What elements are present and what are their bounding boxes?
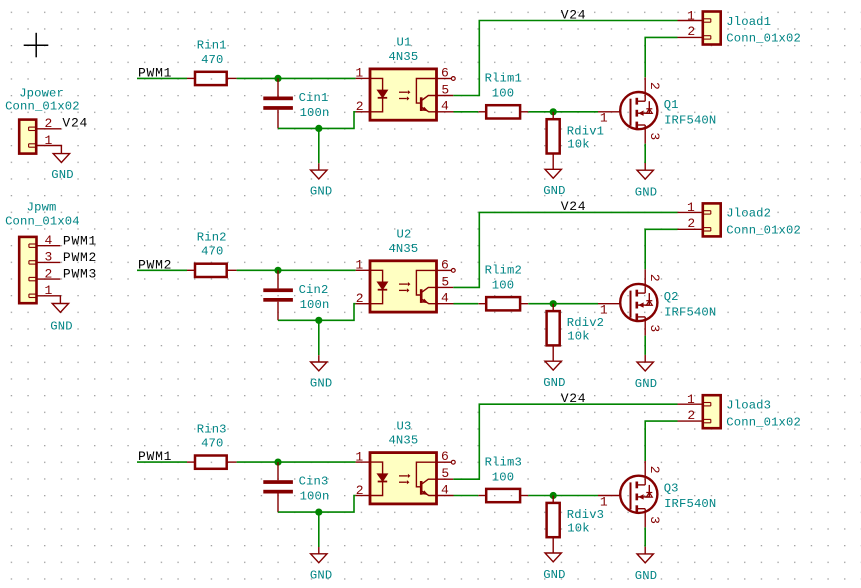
wire drain of Q3 to Jload3 pin 2	[645, 421, 677, 461]
wire PWM1 to Rin3	[137, 461, 187, 463]
ground symbol at Jpower pin 1	[53, 154, 69, 163]
opto-coupler U1 light arrows	[399, 90, 410, 101]
resistor Rlim2 value label 100	[492, 279, 514, 293]
transistor Q3 source pin	[644, 509, 646, 528]
svg-text:2: 2	[356, 291, 364, 306]
connector Jload1 value label Conn_01x02	[726, 32, 801, 46]
pin number 6 of U3	[441, 449, 449, 464]
pin number 6 of U1	[441, 66, 449, 81]
capacitor Cin3 reference label	[299, 475, 329, 489]
svg-text:4: 4	[441, 482, 449, 497]
transistor Q1 drain pin	[644, 77, 646, 101]
ground label GND below Q1	[635, 185, 657, 199]
svg-text:4N35: 4N35	[388, 50, 418, 64]
svg-text:10k: 10k	[567, 138, 589, 152]
opto-coupler U3 pin 5	[437, 478, 454, 480]
pin number 3 of Q1	[647, 132, 662, 140]
svg-text:4: 4	[45, 233, 53, 248]
resistor Rdiv2 value label 10k	[567, 330, 589, 344]
wire drain of Q2 to Jload2 pin 2	[645, 229, 677, 269]
resistor Rdiv1	[547, 112, 560, 170]
ground label GND below Cin3	[310, 568, 332, 582]
resistor Rdiv3	[547, 496, 560, 554]
svg-text:4N35: 4N35	[388, 242, 418, 256]
transistor Q2 body	[620, 284, 657, 321]
ground symbol below Rdiv2	[545, 361, 561, 370]
svg-text:2: 2	[687, 216, 695, 231]
pin number 6 of U2	[441, 257, 449, 272]
capacitor Cin2 value label 100n	[300, 298, 330, 312]
svg-text:Cin2: Cin2	[299, 283, 329, 297]
opto-coupler U2 pin 1	[356, 269, 370, 271]
net label PWM2 at Jpwm pin 3	[63, 250, 97, 265]
opto-coupler U1 pin 6 unconnected	[437, 77, 456, 81]
connector Jload2 pin 1	[678, 211, 711, 214]
svg-text:Q1: Q1	[664, 98, 679, 112]
svg-text:470: 470	[201, 437, 223, 451]
opto-coupler U1 pin 4	[437, 111, 454, 113]
svg-text:Rin3: Rin3	[197, 422, 227, 436]
transistor Q2 gate pin	[598, 303, 620, 305]
ground label GND below Jpwm	[50, 319, 72, 333]
pin number 5 of U3	[441, 466, 449, 481]
ground label GND below Cin2	[310, 377, 332, 391]
resistor Rlim1	[479, 105, 529, 118]
svg-text:Rdiv2: Rdiv2	[567, 316, 604, 330]
svg-text:Conn_01x02: Conn_01x02	[726, 415, 801, 429]
opto-coupler U2 pin 2	[356, 303, 370, 305]
resistor Rin3	[187, 456, 237, 469]
svg-text:Jpwm: Jpwm	[27, 201, 57, 215]
ground symbol below Cin1	[311, 163, 327, 179]
ground symbol at Jpwm pin 1	[52, 304, 68, 313]
connector Jpwm pin 4	[29, 244, 61, 247]
svg-text:5: 5	[441, 274, 449, 289]
svg-text:100n: 100n	[300, 298, 330, 312]
svg-text:4: 4	[441, 99, 449, 114]
svg-text:2: 2	[647, 82, 662, 90]
opto-coupler U3 pin 4	[437, 495, 454, 497]
resistor Rlim1 value label 100	[492, 87, 514, 101]
connector Jpower value label Conn_01x02	[5, 100, 80, 114]
wire junction to ground channel 2	[318, 320, 320, 355]
pin number 4 of Jpwm	[45, 233, 53, 248]
net label V24 at Jpower pin 2	[62, 115, 88, 130]
connector Jpwm pin 3	[29, 261, 61, 264]
svg-text:Jload2: Jload2	[726, 207, 771, 221]
pin number 1 of Jload2	[687, 200, 695, 215]
capacitor Cin1 value label 100n	[300, 106, 330, 120]
resistor Rin1 value label 470	[201, 53, 223, 67]
svg-text:10k: 10k	[567, 330, 589, 344]
transistor Q1 gate pin	[598, 111, 620, 113]
net label PWM3 at Jpwm pin 2	[63, 267, 97, 282]
svg-text:PWM2: PWM2	[63, 250, 97, 265]
connector Jload1 pin 2	[678, 36, 711, 39]
ground label GND below Rdiv1	[543, 184, 565, 198]
svg-text:2: 2	[647, 274, 662, 282]
wire opto pin 4 to Rlim2	[454, 303, 479, 305]
transistor Q3 value label IRF540N	[664, 497, 716, 511]
wire junction to ground channel 3	[318, 512, 320, 547]
junction at Cin2 top	[274, 267, 281, 274]
pin number 1 of U1	[355, 66, 363, 81]
svg-text:Conn_01x02: Conn_01x02	[726, 32, 801, 46]
pin number 4 of U3	[441, 482, 449, 497]
opto-coupler U3 pin 2	[356, 495, 370, 497]
capacitor Cin1 reference label	[299, 91, 329, 105]
svg-text:GND: GND	[543, 184, 565, 198]
connector Jload2 value label Conn_01x02	[726, 224, 801, 238]
pin number 5 of U1	[441, 82, 449, 97]
wire opto pin 4 to Rlim3	[454, 495, 479, 497]
wire source of Q3 to ground	[644, 527, 646, 546]
ground symbol below Rdiv3	[545, 553, 561, 562]
pin number 4 of U2	[441, 291, 449, 306]
svg-text:Q2: Q2	[664, 290, 679, 304]
svg-text:2: 2	[687, 408, 695, 423]
pin number 1 of Q1	[600, 111, 608, 126]
svg-text:Rdiv1: Rdiv1	[567, 124, 604, 138]
opto-coupler U2 reference label	[397, 228, 412, 242]
transistor Q3 body	[620, 476, 657, 513]
opto-coupler U2 body	[370, 261, 437, 312]
svg-text:100: 100	[492, 470, 514, 484]
transistor Q2 reference label	[664, 290, 679, 304]
resistor Rin3 reference label	[197, 422, 227, 436]
ground symbol below Q1	[637, 163, 653, 179]
opto-coupler U1 pin 1	[356, 77, 370, 79]
resistor Rdiv1 value label 10k	[567, 138, 589, 152]
resistor Rlim3	[479, 489, 529, 502]
capacitor Cin3 value label 100n	[300, 490, 330, 504]
ground symbol below Q2	[637, 355, 653, 371]
wire opto pin 5 to V24 rail channel 2	[453, 212, 677, 287]
pin number 2 of U3	[356, 483, 364, 498]
pin number 1 of U3	[355, 449, 363, 464]
pin number 2 of Jload2	[687, 216, 695, 231]
svg-text:U1: U1	[397, 36, 412, 50]
connector Jload3 pin 2	[678, 419, 711, 422]
svg-text:3: 3	[647, 324, 662, 332]
ground label GND below Jpower	[51, 168, 73, 182]
svg-text:V24: V24	[561, 199, 587, 214]
wire Rin1 to opto pin 1	[237, 77, 356, 79]
svg-text:PWM1: PWM1	[63, 233, 97, 248]
wire opto pin 4 to Rlim1	[454, 111, 479, 113]
resistor Rin2 reference label	[197, 231, 227, 245]
opto-coupler U1 value label 4N35	[388, 50, 418, 64]
opto-coupler U1 body	[370, 69, 437, 120]
connector Jload1 reference label	[726, 15, 771, 29]
svg-text:U2: U2	[397, 228, 412, 242]
resistor Rdiv2 reference label	[567, 316, 604, 330]
svg-text:2: 2	[45, 266, 53, 281]
svg-text:3: 3	[45, 250, 53, 265]
pin number 1 of Jpwm	[45, 283, 53, 298]
pin number 2 of U2	[356, 291, 364, 306]
opto-coupler U2 LED	[370, 270, 387, 303]
pin number 2 of Q3	[647, 466, 662, 474]
opto-coupler U2 pin 6 unconnected	[437, 269, 456, 273]
pin number 1 of U2	[355, 258, 363, 273]
opto-coupler U1 pin 5	[437, 95, 454, 97]
svg-text:2: 2	[356, 99, 364, 114]
svg-text:GND: GND	[51, 168, 73, 182]
svg-text:GND: GND	[543, 376, 565, 390]
wire junction to ground channel 1	[318, 128, 320, 163]
svg-text:470: 470	[201, 245, 223, 259]
resistor Rin2 value label 470	[201, 245, 223, 259]
opto-coupler U2 phototransistor	[416, 270, 436, 303]
transistor Q1 reference label	[664, 98, 679, 112]
svg-text:Conn_01x02: Conn_01x02	[5, 100, 80, 114]
ground symbol below Q3	[637, 547, 653, 563]
junction at Cin1 top	[274, 75, 281, 82]
pin number 1 of Q3	[600, 494, 608, 509]
pin number 2 of Jpower	[45, 116, 53, 131]
connector Jpower pin 1	[29, 144, 62, 154]
wire source of Q1 to ground	[644, 144, 646, 163]
junction at Cin3 top	[274, 459, 281, 466]
svg-text:470: 470	[201, 53, 223, 67]
pin number 1 of Jpower	[45, 133, 53, 148]
svg-text:PWM3: PWM3	[63, 267, 97, 282]
svg-text:100: 100	[492, 87, 514, 101]
resistor Rlim2	[479, 297, 529, 310]
pin number 2 of Q2	[647, 274, 662, 282]
connector Jpower body	[19, 120, 36, 154]
svg-text:4: 4	[441, 291, 449, 306]
ground label GND below Rdiv3	[543, 568, 565, 582]
svg-text:V24: V24	[561, 391, 587, 406]
opto-coupler U3 phototransistor	[416, 462, 436, 495]
svg-text:6: 6	[441, 449, 449, 464]
opto-coupler U2 pin 5	[437, 286, 454, 288]
transistor Q1 body	[620, 92, 657, 129]
svg-text:GND: GND	[635, 377, 657, 391]
wire Rin3 to opto pin 1	[237, 461, 356, 463]
svg-text:Rlim3: Rlim3	[485, 455, 522, 469]
resistor Rdiv3 value label 10k	[567, 521, 589, 535]
opto-coupler U3 pin 1	[356, 461, 370, 463]
svg-text:1: 1	[687, 8, 695, 23]
svg-text:3: 3	[647, 132, 662, 140]
svg-text:GND: GND	[310, 568, 332, 582]
connector Jload2 body	[703, 203, 721, 236]
wire Cin2 bottom to opto pin 2	[278, 304, 356, 321]
resistor Rdiv3 reference label	[567, 508, 604, 522]
svg-text:Rlim1: Rlim1	[485, 72, 522, 86]
svg-text:Rlim2: Rlim2	[485, 264, 522, 278]
svg-text:U3: U3	[397, 419, 412, 433]
wire Cin1 bottom to opto pin 2	[278, 112, 356, 129]
svg-text:1: 1	[355, 449, 363, 464]
capacitor Cin2 reference label	[299, 283, 329, 297]
svg-text:5: 5	[441, 466, 449, 481]
connector Jpwm reference label	[27, 201, 57, 215]
svg-text:6: 6	[441, 66, 449, 81]
svg-text:1: 1	[45, 133, 53, 148]
ground label GND below Rdiv2	[543, 376, 565, 390]
pin number 2 of U1	[356, 99, 364, 114]
connector Jpwm pin 2	[29, 277, 61, 280]
connector Jpwm pin 1	[29, 294, 61, 303]
opto-coupler U1 reference label	[397, 36, 412, 50]
svg-text:Cin1: Cin1	[299, 91, 329, 105]
resistor Rlim3 reference label	[485, 455, 522, 469]
wire Cin3 bottom to opto pin 2	[278, 496, 356, 513]
wire opto pin 5 to V24 rail channel 1	[453, 21, 677, 96]
svg-text:Q3: Q3	[664, 482, 679, 496]
svg-text:6: 6	[441, 257, 449, 272]
transistor Q3 reference label	[664, 482, 679, 496]
svg-text:100: 100	[492, 279, 514, 293]
resistor Rlim2 reference label	[485, 264, 522, 278]
ground symbol below Rdiv1	[545, 169, 561, 178]
connector Jload1 body	[703, 12, 721, 45]
resistor Rin1	[187, 72, 237, 85]
opto-coupler U1 LED	[370, 78, 387, 111]
svg-text:GND: GND	[543, 568, 565, 582]
net label PWM2 input of channel 2	[138, 257, 172, 272]
ground label GND below Q3	[635, 569, 657, 583]
svg-text:Rin2: Rin2	[197, 231, 227, 245]
svg-text:Rdiv3: Rdiv3	[567, 508, 604, 522]
opto-coupler U3 light arrows	[399, 474, 410, 485]
net label PWM1 at Jpwm pin 4	[63, 233, 97, 248]
connector Jload3 value label Conn_01x02	[726, 415, 801, 429]
svg-text:GND: GND	[310, 185, 332, 199]
svg-text:1: 1	[600, 303, 608, 318]
junction on bottom wire of channel 2	[315, 317, 322, 324]
svg-text:GND: GND	[310, 377, 332, 391]
connector Jload3 pin 1	[678, 403, 711, 406]
power label V24 channel 3	[561, 391, 587, 406]
resistor Rin1 reference label	[197, 39, 227, 53]
opto-coupler U3 reference label	[397, 419, 412, 433]
pin number 1 of Q2	[600, 303, 608, 318]
resistor Rlim3 value label 100	[492, 470, 514, 484]
net label PWM1 input of channel 3	[138, 449, 172, 464]
capacitor Cin2	[263, 270, 293, 320]
svg-text:Jload3: Jload3	[726, 399, 771, 413]
capacitor Cin3	[263, 462, 293, 512]
junction on bottom wire of channel 1	[315, 125, 322, 132]
junction at Rdiv3 top	[550, 492, 557, 499]
wire PWM1 to Rin1	[137, 77, 187, 79]
transistor Q2 drain pin	[644, 269, 646, 293]
svg-text:2: 2	[356, 483, 364, 498]
sheet origin crosshair	[24, 33, 49, 58]
ground label GND below Cin1	[310, 185, 332, 199]
ground symbol below Cin2	[311, 355, 327, 371]
resistor Rin3 value label 470	[201, 437, 223, 451]
opto-coupler U1 phototransistor	[416, 79, 436, 112]
svg-text:4N35: 4N35	[388, 434, 418, 448]
capacitor Cin1	[263, 78, 293, 128]
svg-text:GND: GND	[635, 185, 657, 199]
connector Jload3 body	[703, 395, 721, 428]
connector Jpower pin 2	[29, 127, 62, 130]
svg-text:1: 1	[355, 66, 363, 81]
pin number 4 of U1	[441, 99, 449, 114]
ground label GND below Q2	[635, 377, 657, 391]
pin number 1 of Jload3	[687, 392, 695, 407]
opto-coupler U2 light arrows	[399, 282, 410, 293]
svg-text:1: 1	[687, 200, 695, 215]
svg-text:100n: 100n	[300, 106, 330, 120]
svg-text:3: 3	[647, 516, 662, 524]
svg-text:1: 1	[600, 111, 608, 126]
svg-text:Cin3: Cin3	[299, 475, 329, 489]
connector Jload2 reference label	[726, 207, 771, 221]
svg-text:1: 1	[45, 283, 53, 298]
pin number 2 of Jpwm	[45, 266, 53, 281]
wire source of Q2 to ground	[644, 336, 646, 355]
connector Jload1 pin 1	[678, 19, 711, 22]
svg-text:1: 1	[600, 494, 608, 509]
connector Jload3 reference label	[726, 399, 771, 413]
connector Jload2 pin 2	[678, 228, 711, 231]
svg-text:IRF540N: IRF540N	[664, 114, 716, 128]
svg-text:GND: GND	[50, 319, 72, 333]
opto-coupler U2 pin 4	[437, 303, 454, 305]
svg-text:IRF540N: IRF540N	[664, 305, 716, 319]
pin number 2 of Jload1	[687, 24, 695, 39]
transistor Q1 value label IRF540N	[664, 114, 716, 128]
opto-coupler U3 LED	[370, 462, 387, 495]
svg-text:V24: V24	[561, 7, 587, 22]
wire Rlim2 to gate of Q2	[528, 303, 598, 305]
wire PWM2 to Rin2	[137, 269, 187, 271]
resistor Rdiv1 reference label	[567, 124, 604, 138]
wire opto pin 5 to V24 rail channel 3	[453, 404, 677, 479]
pin number 5 of U2	[441, 274, 449, 289]
svg-text:1: 1	[687, 392, 695, 407]
svg-text:5: 5	[441, 82, 449, 97]
pin number 2 of Jload3	[687, 408, 695, 423]
pin number 3 of Q2	[647, 324, 662, 332]
svg-text:Jpower: Jpower	[19, 87, 64, 101]
svg-text:V24: V24	[62, 115, 88, 130]
transistor Q3 gate pin	[598, 495, 620, 497]
net label PWM1 input of channel 1	[138, 66, 172, 81]
pin number 2 of Q1	[647, 82, 662, 90]
svg-text:10k: 10k	[567, 521, 589, 535]
junction on bottom wire of channel 3	[315, 508, 322, 515]
junction at Rdiv1 top	[550, 108, 557, 115]
transistor Q2 value label IRF540N	[664, 305, 716, 319]
connector Jpwm body	[19, 237, 36, 303]
svg-text:Rin1: Rin1	[197, 39, 227, 53]
svg-text:Conn_01x04: Conn_01x04	[5, 215, 80, 229]
transistor Q3 drain pin	[644, 461, 646, 485]
svg-text:Conn_01x02: Conn_01x02	[726, 224, 801, 238]
ground symbol below Cin3	[311, 547, 327, 563]
svg-text:GND: GND	[635, 569, 657, 583]
power label V24 channel 1	[561, 7, 587, 22]
transistor Q1 source pin	[644, 125, 646, 144]
resistor Rin2	[187, 264, 237, 277]
wire drain of Q1 to Jload1 pin 2	[645, 37, 677, 77]
svg-text:100n: 100n	[300, 490, 330, 504]
pin number 1 of Jload1	[687, 8, 695, 23]
svg-text:2: 2	[647, 466, 662, 474]
pin number 3 of Q3	[647, 516, 662, 524]
wire Rin2 to opto pin 1	[237, 269, 356, 271]
svg-text:2: 2	[45, 116, 53, 131]
